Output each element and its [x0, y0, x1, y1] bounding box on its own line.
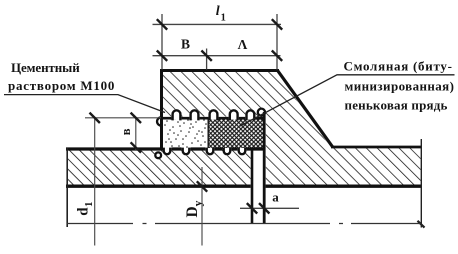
left pipe cut edge	[66, 148, 68, 227]
left leader	[4, 95, 165, 113]
left pipe wall (hatched band)	[68, 150, 251, 185]
pipe outer surface / caulk bottom line segments	[66, 147, 265, 150]
bottom arch strokes	[164, 148, 246, 155]
cement mortar stipple	[164, 114, 207, 154]
caulk mouth bump left-top	[157, 117, 161, 125]
right leader	[240, 75, 455, 126]
a dimension line	[240, 207, 299, 209]
Dy dimension line	[201, 167, 203, 246]
svg-text:в: в	[119, 128, 133, 135]
d1 dimension line	[94, 118, 96, 246]
centerline (axis)	[67, 223, 421, 225]
svg-text:D: D	[184, 206, 201, 217]
svg-text:l: l	[216, 4, 220, 19]
svg-text:раствором М100: раствором М100	[8, 78, 115, 93]
caulk interior background	[163, 117, 264, 151]
pipe bore line right	[266, 184, 421, 187]
dimension line l1	[153, 23, 282, 25]
svg-text:минизированная): минизированная)	[345, 79, 455, 94]
svg-text:пеньковая прядь: пеньковая прядь	[345, 98, 448, 113]
caulk corner bump right-top	[258, 109, 265, 116]
right pipe end extension line	[420, 139, 422, 228]
caulk top edge line segments	[162, 117, 265, 120]
svg-text:Λ: Λ	[238, 37, 248, 52]
svg-text:В: В	[181, 37, 190, 52]
joint gap (white) between spigot end and socket shoulder	[253, 148, 263, 187]
dimension label Dy (rotated)	[184, 200, 205, 217]
extension line right (socket corner)	[276, 14, 278, 70]
dimension "v" reference line (caulk top level)	[85, 117, 161, 119]
socket slant edge	[277, 70, 333, 147]
extension line left (socket mouth)	[161, 14, 163, 70]
socket shoulder / caulk right edge	[263, 112, 266, 224]
svg-text:у: у	[193, 200, 205, 206]
svg-text:a: a	[272, 190, 279, 205]
socket outline: top edge	[160, 69, 279, 72]
svg-text:1: 1	[83, 202, 95, 208]
right pipe outer line	[331, 146, 421, 149]
top arch strokes	[173, 110, 255, 120]
extension line middle (B/L split)	[206, 49, 208, 70]
svg-text:d: d	[75, 207, 91, 216]
svg-text:1: 1	[221, 13, 226, 24]
top caulk arches (white covers then strokes)	[171, 109, 255, 120]
pipe bore line left	[66, 184, 251, 187]
caulk mouth bump left-bottom	[155, 152, 161, 158]
bottom caulk arches (white covers)	[162, 148, 246, 156]
svg-text:Смоляная (биту-: Смоляная (биту-	[344, 59, 453, 74]
socket pipe body (hatched)	[163, 72, 421, 185]
socket left edge	[160, 69, 163, 151]
spigot end face	[251, 149, 254, 224]
cement/hemp boundary	[207, 118, 209, 150]
svg-text:Цементный: Цементный	[11, 60, 80, 75]
hemp strand cross-hatch	[209, 118, 265, 150]
dimension label d1 (rotated)	[75, 202, 95, 216]
ticks of dimensions l1, B, L	[157, 19, 282, 61]
dimension "v" vertical line (annular gap)	[135, 118, 137, 150]
dimension line B / L	[153, 55, 281, 57]
ticks of dimensions v, Dy, a	[90, 113, 270, 214]
tick at axis on right extension	[418, 221, 425, 228]
